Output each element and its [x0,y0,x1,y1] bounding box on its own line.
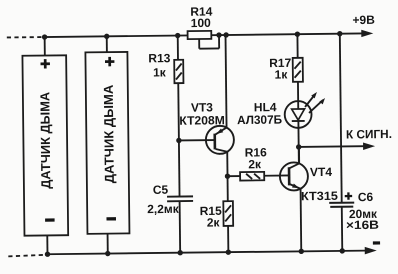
svg-text:2к: 2к [248,157,262,171]
svg-text:1к: 1к [275,67,289,81]
svg-text:ДАТЧИК ДЫМА: ДАТЧИК ДЫМА [101,84,117,183]
svg-text:2,2мк: 2,2мк [147,202,180,216]
svg-text:1к: 1к [153,65,167,79]
svg-text:АЛ307Б: АЛ307Б [237,113,283,128]
svg-text:2к: 2к [207,215,221,229]
svg-text:С5: С5 [153,183,169,197]
svg-text:С6: С6 [358,190,374,204]
svg-text:R13: R13 [148,51,170,65]
svg-text:×16В: ×16В [346,218,380,232]
svg-text:К СИГН.: К СИГН. [346,127,392,142]
svg-text:ДАТЧИК ДЫМА: ДАТЧИК ДЫМА [37,91,53,189]
svg-text:100: 100 [191,16,212,30]
svg-text:КТ208М: КТ208М [179,113,225,128]
svg-text:+9В: +9В [352,13,375,27]
svg-text:КТ315: КТ315 [301,189,338,203]
svg-text:VT4: VT4 [310,165,332,179]
